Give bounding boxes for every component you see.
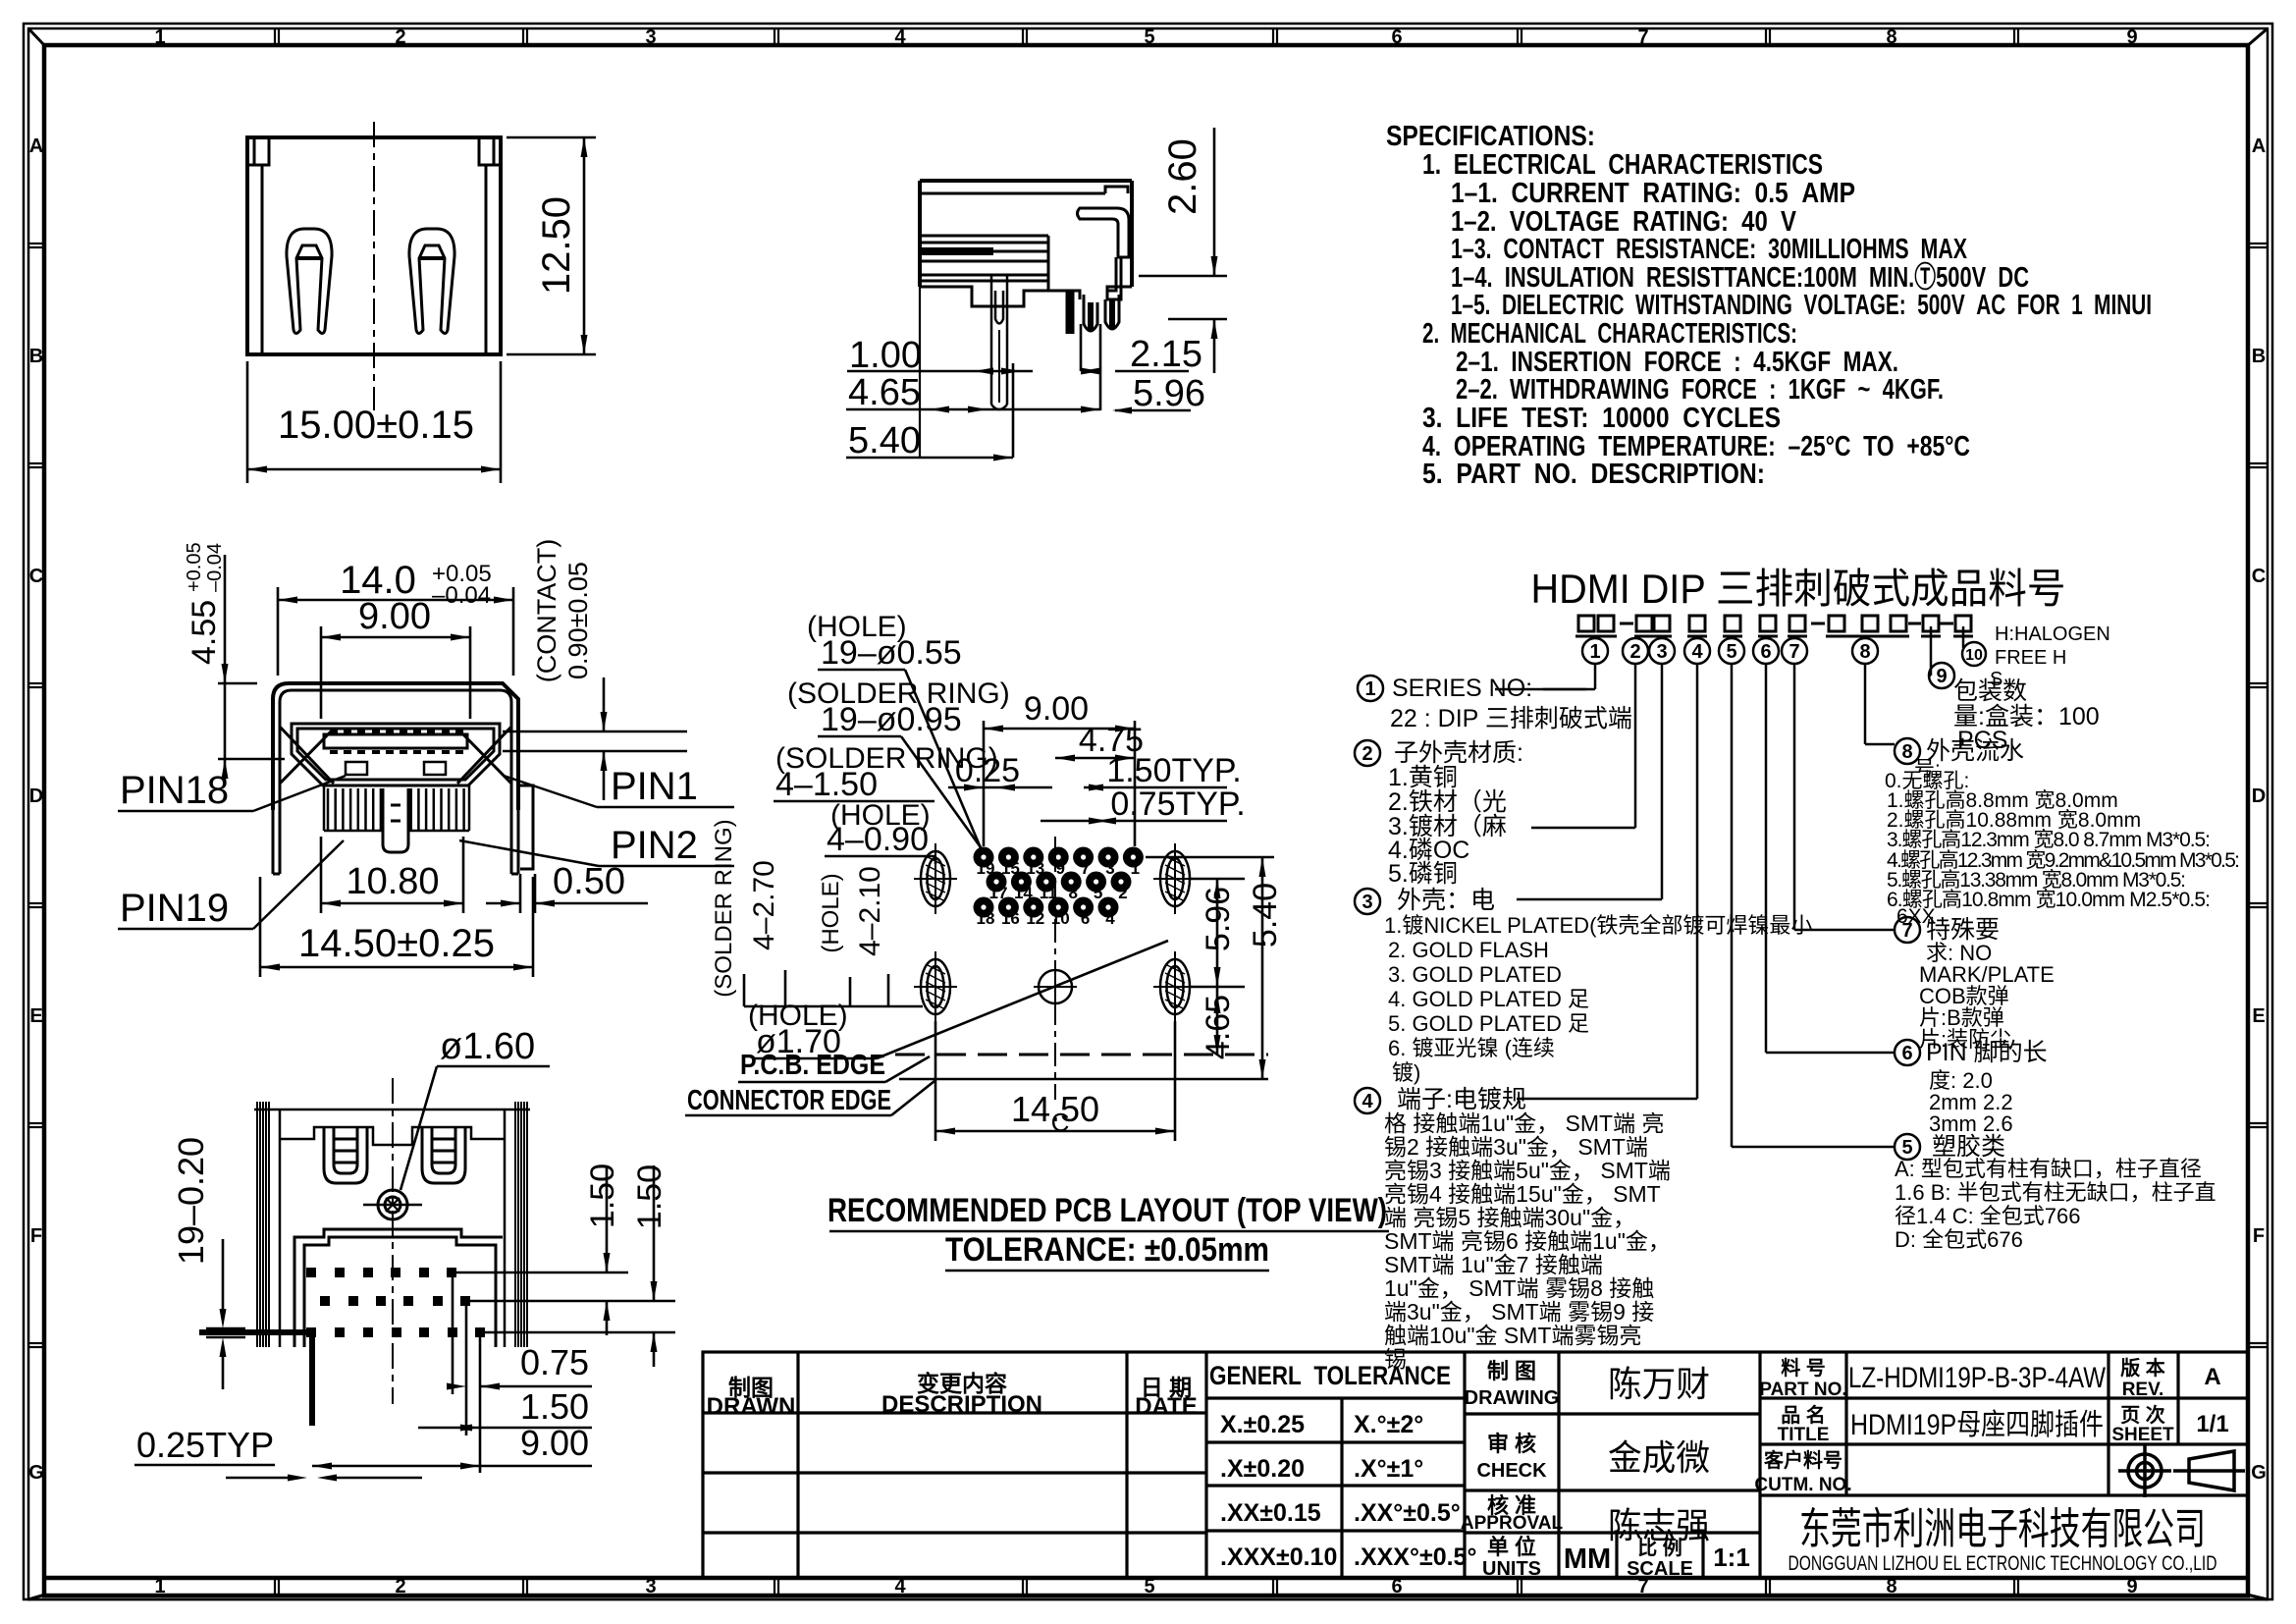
shell legs bbox=[273, 785, 533, 874]
svg-text:触端10u"金 SMT端雾锡亮: 触端10u"金 SMT端雾锡亮 bbox=[1384, 1323, 1641, 1348]
svg-text:5: 5 bbox=[1144, 27, 1154, 48]
pin comb bbox=[324, 785, 469, 852]
svg-text:10.80: 10.80 bbox=[346, 861, 439, 902]
svg-text:制 图: 制 图 bbox=[1487, 1359, 1536, 1383]
svg-text:2: 2 bbox=[1362, 743, 1372, 765]
svg-text:径1.4 C: 全包式766: 径1.4 C: 全包式766 bbox=[1895, 1204, 2081, 1228]
svg-text:亮锡3 接触端5u"金， SMT端: 亮锡3 接触端5u"金， SMT端 bbox=[1384, 1158, 1671, 1183]
svg-text:外壳：电: 外壳：电 bbox=[1397, 887, 1495, 914]
svg-text:包装数: 包装数 bbox=[1953, 677, 2027, 705]
svg-text:1u"金， SMT端 雾锡8 接触: 1u"金， SMT端 雾锡8 接触 bbox=[1384, 1275, 1654, 1301]
svg-text:3: 3 bbox=[1362, 892, 1372, 913]
svg-text:8: 8 bbox=[1859, 641, 1870, 663]
latch spring right bbox=[409, 229, 454, 334]
svg-text:PIN 脚的长: PIN 脚的长 bbox=[1926, 1039, 2048, 1066]
svg-text:A: A bbox=[2204, 1364, 2220, 1390]
svg-text:3: 3 bbox=[1656, 641, 1667, 663]
svg-text:2.铁材（光: 2.铁材（光 bbox=[1388, 788, 1507, 816]
svg-text:.XXX±0.10: .XXX±0.10 bbox=[1220, 1543, 1337, 1571]
svg-text:1: 1 bbox=[154, 1576, 165, 1597]
svg-text:1–1. CURRENT RATING: 0.5 A: 1–1. CURRENT RATING: 0.5 AMP bbox=[1451, 178, 1855, 209]
specifications text block bbox=[1386, 121, 2152, 490]
svg-text:B: B bbox=[2252, 346, 2266, 367]
svg-text:A: 型包式有柱有缺口，柱子直径: A: 型包式有柱有缺口，柱子直径 bbox=[1895, 1157, 2202, 1181]
svg-text:8: 8 bbox=[1901, 741, 1912, 763]
svg-text:3: 3 bbox=[645, 27, 656, 48]
bottom pads bbox=[306, 1268, 485, 1337]
dim 15.00±0.15 bbox=[247, 361, 501, 483]
svg-text:4. GOLD PLATED 足: 4. GOLD PLATED 足 bbox=[1388, 987, 1589, 1011]
svg-text:.XX±0.15: .XX±0.15 bbox=[1220, 1499, 1321, 1527]
svg-text:DRAWING: DRAWING bbox=[1465, 1387, 1560, 1409]
blade teeth bbox=[330, 731, 463, 752]
side view body outline bbox=[920, 181, 1132, 458]
svg-text:10: 10 bbox=[1965, 647, 1983, 664]
svg-text:4: 4 bbox=[894, 27, 906, 48]
svg-text:1: 1 bbox=[1589, 641, 1600, 663]
svg-text:19–0.20: 19–0.20 bbox=[171, 1137, 211, 1265]
svg-text:14.50: 14.50 bbox=[1011, 1089, 1099, 1129]
19 solder pads bbox=[974, 847, 1144, 929]
svg-text:5. GOLD PLATED 足: 5. GOLD PLATED 足 bbox=[1388, 1011, 1589, 1036]
svg-text:P.C.B. EDGE: P.C.B. EDGE bbox=[740, 1050, 885, 1081]
circled 9 and 10 bbox=[1929, 663, 1954, 688]
svg-text:18: 18 bbox=[977, 909, 995, 928]
svg-text:1.50TYP.: 1.50TYP. bbox=[1106, 752, 1241, 789]
svg-text:格 接触端1u"金， SMT端 亮: 格 接触端1u"金， SMT端 亮 bbox=[1384, 1110, 1664, 1136]
svg-text:.X±0.20: .X±0.20 bbox=[1220, 1455, 1305, 1483]
svg-text:料 号: 料 号 bbox=[1781, 1357, 1826, 1380]
svg-text:2. GOLD FLASH: 2. GOLD FLASH bbox=[1388, 938, 1549, 962]
svg-text:4.65: 4.65 bbox=[848, 372, 921, 413]
svg-text:LZ-HDMI19P-B-3P-4AW: LZ-HDMI19P-B-3P-4AW bbox=[1848, 1362, 2107, 1394]
svg-text:4–1.50: 4–1.50 bbox=[775, 766, 878, 803]
svg-text:外壳流水: 外壳流水 bbox=[1926, 737, 2024, 765]
centerline bbox=[373, 122, 375, 410]
legend drop lines bbox=[1495, 626, 1963, 1147]
svg-text:8: 8 bbox=[1886, 27, 1896, 48]
svg-text:CHECK: CHECK bbox=[1476, 1460, 1547, 1482]
svg-text:特殊要: 特殊要 bbox=[1926, 916, 2000, 944]
svg-text:6: 6 bbox=[1760, 641, 1771, 663]
svg-text:5: 5 bbox=[1726, 641, 1736, 663]
svg-text:子外壳材质:: 子外壳材质: bbox=[1394, 739, 1523, 767]
svg-text:PIN19: PIN19 bbox=[120, 887, 229, 930]
dim 9.00 pcb bbox=[984, 721, 1135, 846]
svg-text:A: A bbox=[2252, 135, 2266, 157]
hole labels bbox=[774, 611, 1010, 864]
svg-text:(HOLE): (HOLE) bbox=[818, 873, 844, 952]
dim 14.50±0.25 bbox=[260, 877, 533, 977]
svg-text:REV.: REV. bbox=[2122, 1380, 2164, 1400]
svg-text:2.60: 2.60 bbox=[1161, 138, 1204, 215]
svg-text:1.黄铜: 1.黄铜 bbox=[1388, 764, 1458, 791]
svg-text:1:1: 1:1 bbox=[1713, 1543, 1750, 1572]
svg-text:3.螺孔高12.3mm 宽8.0 8.7mm M3*0.5: 3.螺孔高12.3mm 宽8.0 8.7mm M3*0.5: bbox=[1887, 829, 2211, 851]
svg-text:锡2 接触端3u"金， SMT端: 锡2 接触端3u"金， SMT端 bbox=[1384, 1134, 1648, 1160]
circled digits bbox=[1582, 638, 1878, 664]
svg-text:X.°±2°: X.°±2° bbox=[1354, 1411, 1423, 1438]
svg-text:12.50: 12.50 bbox=[535, 196, 578, 295]
svg-text:5: 5 bbox=[1094, 884, 1102, 902]
svg-text:22 : DIP 三排刺破式端: 22 : DIP 三排刺破式端 bbox=[1390, 705, 1632, 732]
latch spring left bbox=[287, 229, 332, 334]
svg-text:6: 6 bbox=[1081, 909, 1090, 928]
svg-text:5: 5 bbox=[1901, 1137, 1912, 1159]
dims 1.50 1.50 bottom view bbox=[456, 1165, 675, 1367]
svg-text:APPROVAL: APPROVAL bbox=[1461, 1513, 1564, 1534]
svg-text:端 亮锡5 接触端30u"金，: 端 亮锡5 接触端30u"金， bbox=[1384, 1205, 1635, 1230]
svg-text:0.90±0.05: 0.90±0.05 bbox=[563, 562, 593, 679]
PIN labels bbox=[118, 776, 734, 929]
svg-text:客户料号: 客户料号 bbox=[1763, 1448, 1842, 1472]
svg-text:D: D bbox=[2252, 785, 2266, 807]
svg-text:PART NO.: PART NO. bbox=[1759, 1380, 1846, 1400]
svg-text:0.50: 0.50 bbox=[553, 861, 625, 902]
svg-text:ø1.60: ø1.60 bbox=[440, 1026, 535, 1067]
svg-text:版 本: 版 本 bbox=[2120, 1356, 2165, 1380]
svg-text:1: 1 bbox=[154, 27, 165, 48]
svg-text:4: 4 bbox=[1362, 1091, 1373, 1112]
first-angle projection symbol bbox=[2118, 1444, 2245, 1497]
svg-text:5.40: 5.40 bbox=[848, 420, 921, 461]
svg-text:5.40: 5.40 bbox=[1247, 883, 1284, 947]
legend left column bbox=[1355, 675, 1812, 1372]
svg-text:SERIES NO:: SERIES NO: bbox=[1392, 675, 1532, 702]
svg-text:4.65: 4.65 bbox=[1200, 995, 1237, 1059]
dim 4.55 rotated bbox=[218, 555, 285, 785]
center hole Ø1.70 bbox=[1034, 965, 1077, 1008]
svg-text:19–ø0.55: 19–ø0.55 bbox=[821, 634, 962, 672]
svg-text:19–ø0.95: 19–ø0.95 bbox=[821, 701, 962, 738]
dims 1.00 4.65 5.40 left bbox=[846, 363, 1100, 461]
svg-text:5.磷铜: 5.磷铜 bbox=[1388, 860, 1458, 888]
svg-text:东莞市利洲电子科技有限公司: 东莞市利洲电子科技有限公司 bbox=[1799, 1505, 2206, 1553]
svg-text:PIN18: PIN18 bbox=[120, 769, 229, 812]
svg-text:G: G bbox=[28, 1462, 44, 1484]
dim 1.50TYP pcb bbox=[1084, 785, 1227, 791]
svg-text:0.75: 0.75 bbox=[520, 1342, 589, 1382]
svg-text:4: 4 bbox=[1105, 909, 1115, 928]
svg-text:1: 1 bbox=[1364, 678, 1375, 700]
svg-text:陈万财: 陈万财 bbox=[1608, 1364, 1710, 1404]
svg-text:SCALE: SCALE bbox=[1627, 1558, 1693, 1580]
dim 2.60 bbox=[1139, 128, 1227, 373]
svg-text:C: C bbox=[29, 566, 43, 587]
svg-text:UNITS: UNITS bbox=[1482, 1558, 1541, 1580]
title block header texts bbox=[707, 1356, 2229, 1580]
svg-text:1.50: 1.50 bbox=[520, 1386, 589, 1427]
center hole target bbox=[363, 1078, 422, 1404]
svg-text:16: 16 bbox=[1001, 909, 1020, 928]
svg-text:1.50: 1.50 bbox=[631, 1164, 668, 1229]
svg-text:2–2. WITHDRAWING FORCE : 1: 2–2. WITHDRAWING FORCE : 1KGF ~ 4KGF. bbox=[1456, 374, 1944, 406]
svg-text:3. GOLD PLATED: 3. GOLD PLATED bbox=[1388, 962, 1562, 987]
svg-text:E: E bbox=[29, 1005, 42, 1027]
svg-text:5.96: 5.96 bbox=[1133, 373, 1205, 414]
dims 5.96 5.40 4.65 pcb bbox=[1146, 857, 1274, 1079]
dims 2.15 5.96 right bbox=[1081, 324, 1191, 414]
svg-text:4: 4 bbox=[1691, 641, 1703, 663]
svg-text:SPECIFICATIONS:: SPECIFICATIONS: bbox=[1386, 121, 1595, 152]
svg-text:金成微: 金成微 bbox=[1608, 1437, 1710, 1478]
thick pin lead bbox=[199, 1329, 311, 1335]
svg-text:14.50±0.25: 14.50±0.25 bbox=[298, 922, 495, 965]
svg-text:–0.04: –0.04 bbox=[204, 543, 226, 592]
svg-text:H:HALOGEN: H:HALOGEN bbox=[1995, 623, 2110, 645]
svg-text:D: D bbox=[29, 785, 43, 807]
svg-text:0.25: 0.25 bbox=[955, 752, 1020, 789]
dim 4.75 pcb bbox=[1055, 755, 1135, 762]
svg-text:7: 7 bbox=[1789, 641, 1799, 663]
bottom view latch springs bbox=[324, 1127, 367, 1183]
centerline bbox=[1054, 837, 1056, 1100]
svg-text:0.25TYP: 0.25TYP bbox=[136, 1425, 274, 1465]
svg-text:X.±0.25: X.±0.25 bbox=[1220, 1411, 1305, 1438]
svg-text:.XX°±0.5°: .XX°±0.5° bbox=[1354, 1499, 1461, 1527]
svg-text:GENERL TOLERANCE: GENERL TOLERANCE bbox=[1209, 1361, 1451, 1390]
svg-text:9.00: 9.00 bbox=[520, 1423, 589, 1463]
legend right column bbox=[1885, 623, 2240, 1252]
svg-text:12: 12 bbox=[1026, 909, 1044, 928]
svg-text:2. MECHANICAL CHARACTERISTIC: 2. MECHANICAL CHARACTERISTICS: bbox=[1422, 318, 1797, 350]
dim 9.00 face bbox=[321, 626, 470, 719]
svg-text:C: C bbox=[2252, 566, 2266, 587]
svg-text:F: F bbox=[30, 1225, 42, 1247]
svg-text:DONGGUAN LIZHOU EL ECTRONIC TE: DONGGUAN LIZHOU EL ECTRONIC TECHNOLOGY C… bbox=[1789, 1552, 2217, 1575]
svg-text:SMT端 亮锡6 接触端1u"金，: SMT端 亮锡6 接触端1u"金， bbox=[1384, 1228, 1671, 1254]
svg-text:RECOMMENDED PCB LAYOUT (TOP: RECOMMENDED PCB LAYOUT (TOP VIEW) bbox=[828, 1192, 1387, 1229]
svg-text:6. 镀亚光镍 (连续: 6. 镀亚光镍 (连续 bbox=[1388, 1036, 1555, 1060]
svg-text:D: 全包式676: D: 全包式676 bbox=[1895, 1227, 2023, 1252]
svg-text:15.00±0.15: 15.00±0.15 bbox=[278, 404, 474, 447]
svg-text:单 位: 单 位 bbox=[1487, 1535, 1536, 1559]
svg-text:9.00: 9.00 bbox=[358, 596, 431, 637]
svg-text:FREE H: FREE H bbox=[1995, 647, 2066, 669]
dim 0.75TYP pcb bbox=[1041, 818, 1227, 825]
dim 0.50 bbox=[486, 874, 648, 913]
svg-text:镀): 镀) bbox=[1392, 1060, 1420, 1085]
svg-text:9: 9 bbox=[2126, 27, 2137, 48]
svg-text:DRAWN: DRAWN bbox=[707, 1393, 796, 1420]
svg-text:1.00: 1.00 bbox=[849, 335, 922, 376]
svg-text:亮锡4 接触端15u"金， SMT: 亮锡4 接触端15u"金， SMT bbox=[1384, 1181, 1661, 1207]
dim 0.25TYP bbox=[226, 1475, 422, 1482]
dim 14.0 +0.05 -0.04 bbox=[278, 587, 513, 676]
svg-text:2: 2 bbox=[395, 1576, 405, 1597]
svg-text:1.镀NICKEL PLATED(铁壳全部镀可焊镍最小: 1.镀NICKEL PLATED(铁壳全部镀可焊镍最小 bbox=[1384, 913, 1812, 938]
dims 0.75 1.50 9.00 bottom bbox=[312, 1276, 592, 1473]
svg-text:5.96: 5.96 bbox=[1200, 887, 1237, 951]
title block grid bbox=[703, 1352, 2248, 1578]
svg-text:A: A bbox=[29, 135, 43, 157]
svg-text:7: 7 bbox=[1637, 27, 1648, 48]
svg-text:1/1: 1/1 bbox=[2196, 1411, 2228, 1437]
svg-text:2: 2 bbox=[1629, 641, 1640, 663]
svg-text:4–2.10: 4–2.10 bbox=[854, 866, 886, 956]
svg-text:2: 2 bbox=[395, 27, 405, 48]
svg-text:DATE: DATE bbox=[1135, 1393, 1198, 1420]
dim 10.80 bbox=[321, 837, 463, 913]
svg-text:4.55: 4.55 bbox=[186, 600, 223, 665]
svg-text:2: 2 bbox=[1118, 884, 1127, 902]
svg-text:5. PART NO. DESCRIPTION:: 5. PART NO. DESCRIPTION: bbox=[1422, 459, 1765, 490]
svg-text:F: F bbox=[2253, 1225, 2265, 1247]
svg-text:0.75TYP.: 0.75TYP. bbox=[1110, 785, 1245, 823]
svg-text:G: G bbox=[2251, 1462, 2267, 1484]
svg-text:审 核: 审 核 bbox=[1487, 1432, 1536, 1456]
svg-text:10: 10 bbox=[1051, 909, 1070, 928]
dim 0.25 pcb bbox=[948, 785, 1052, 791]
connector edge line bbox=[899, 1078, 1268, 1081]
svg-text:锡: 锡 bbox=[1384, 1346, 1407, 1372]
dim 14.50 pcb bbox=[935, 1021, 1175, 1141]
4 oval mounting holes bbox=[914, 843, 1197, 1022]
svg-text:.X°±1°: .X°±1° bbox=[1354, 1455, 1423, 1483]
svg-text:E: E bbox=[2252, 1005, 2265, 1027]
svg-text:(SOLDER RING): (SOLDER RING) bbox=[711, 819, 737, 997]
svg-text:端3u"金， SMT端 雾锡9 接: 端3u"金， SMT端 雾锡9 接 bbox=[1384, 1299, 1654, 1325]
svg-text:–0.04: –0.04 bbox=[432, 582, 491, 609]
dim 19-0.20 rotated bbox=[206, 1239, 245, 1389]
svg-text:4–0.90: 4–0.90 bbox=[827, 821, 929, 858]
svg-text:9: 9 bbox=[1936, 666, 1947, 687]
svg-text:1–3. CONTACT RESISTANCE: 30: 1–3. CONTACT RESISTANCE: 30MILLIOHMS MAX bbox=[1451, 234, 1967, 265]
svg-text:1.50: 1.50 bbox=[584, 1164, 621, 1228]
svg-text:比 例: 比 例 bbox=[1637, 1536, 1682, 1559]
svg-text:(CONTACT): (CONTACT) bbox=[532, 539, 561, 682]
svg-text:1: 1 bbox=[1131, 859, 1140, 878]
svg-text:3: 3 bbox=[645, 1576, 656, 1597]
svg-text:SMT端 1u"金7 接触端: SMT端 1u"金7 接触端 bbox=[1384, 1252, 1603, 1277]
part number boxes bbox=[1575, 616, 1973, 636]
svg-text:TITLE: TITLE bbox=[1778, 1425, 1830, 1445]
svg-text:B: B bbox=[29, 346, 43, 367]
svg-text:6: 6 bbox=[1901, 1043, 1912, 1064]
svg-text:2.15: 2.15 bbox=[1130, 334, 1202, 375]
svg-text:品 名: 品 名 bbox=[1781, 1403, 1826, 1427]
svg-text:端子:电镀规: 端子:电镀规 bbox=[1397, 1086, 1526, 1113]
svg-text:3. LIFE TEST: 10000 CYCLES: 3. LIFE TEST: 10000 CYCLES bbox=[1422, 403, 1781, 434]
svg-text:4–2.70: 4–2.70 bbox=[748, 860, 780, 950]
front view top-left: connector rear shell bbox=[247, 137, 501, 354]
svg-text:SHEET: SHEET bbox=[2111, 1425, 2174, 1445]
svg-text:1.6 B: 半包式有柱无缺口，柱子直: 1.6 B: 半包式有柱无缺口，柱子直 bbox=[1895, 1180, 2216, 1205]
svg-text:PIN1: PIN1 bbox=[611, 765, 698, 808]
svg-text:HDMI DIP 三排刺破式成品料号: HDMI DIP 三排刺破式成品料号 bbox=[1531, 566, 2066, 612]
bottom view body bbox=[254, 1110, 530, 1347]
svg-text:+0.05: +0.05 bbox=[184, 542, 205, 592]
svg-text:6: 6 bbox=[1391, 27, 1402, 48]
pin field box bbox=[294, 1229, 503, 1347]
svg-text:MM: MM bbox=[1564, 1543, 1611, 1575]
svg-text:HDMI19P母座四脚插件: HDMI19P母座四脚插件 bbox=[1850, 1409, 2104, 1441]
svg-text:CONNECTOR EDGE: CONNECTOR EDGE bbox=[687, 1085, 891, 1116]
svg-text:页 次: 页 次 bbox=[2120, 1403, 2165, 1427]
svg-text:1–5. DIELECTRIC WITHSTANDING: 1–5. DIELECTRIC WITHSTANDING VOLTAGE: 50… bbox=[1451, 290, 2152, 321]
svg-text:8: 8 bbox=[1068, 884, 1077, 902]
svg-text:TOLERANCE: ±0.05mm: TOLERANCE: ±0.05mm bbox=[945, 1231, 1269, 1269]
svg-text:1. ELECTRICAL CHARACTERISTIC: 1. ELECTRICAL CHARACTERISTICS bbox=[1422, 149, 1823, 181]
svg-text:DESCRIPTION: DESCRIPTION bbox=[881, 1391, 1042, 1418]
bottom wall lugs bbox=[346, 762, 446, 775]
svg-text:.XXX°±0.5°: .XXX°±0.5° bbox=[1354, 1543, 1476, 1571]
svg-text:7: 7 bbox=[1901, 920, 1912, 942]
dim 12.50 bbox=[507, 137, 596, 354]
side view pins bbox=[991, 275, 1119, 409]
svg-text:CUTM. NO.: CUTM. NO. bbox=[1754, 1475, 1851, 1495]
HDMI face view outer shell bbox=[273, 683, 518, 810]
P.C.B. edge dashed line bbox=[895, 1054, 1268, 1056]
